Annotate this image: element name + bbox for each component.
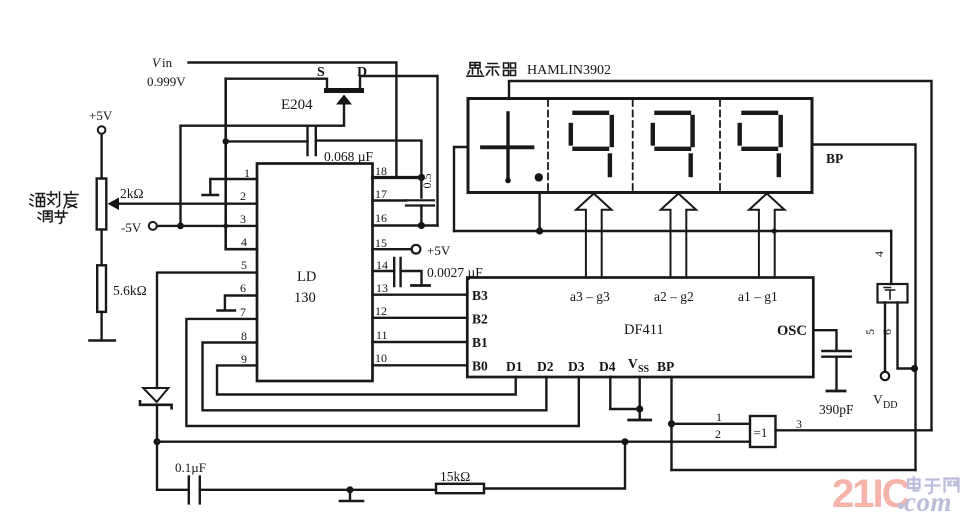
svg-text:390pF: 390pF [819,402,854,417]
pin 12 wire to B2 [373,317,468,319]
junction D4/Vss [636,405,643,412]
svg-text:2kΩ: 2kΩ [120,186,144,201]
junction DP drop [536,227,543,234]
label full-scale-adjust line1 (hanzi) [30,192,78,209]
terminal +5V at pin15 [412,245,421,254]
svg-text:V: V [152,55,162,70]
wire -5V to pin3 [157,225,257,227]
pin 16 wire [373,224,438,226]
svg-text:D3: D3 [568,359,585,374]
wire diode net to gate =1 pin2 [157,441,750,443]
wire diode to 0.1uF node [157,405,189,490]
transistor E204 FET channel bar [324,88,364,93]
wire display decimal point drop [538,193,540,232]
svg-text:15: 15 [375,236,387,250]
svg-text:5: 5 [241,258,247,272]
arrow 3 (units digit driver) [749,194,784,278]
wire gate pin3 output [776,429,932,431]
svg-text:1: 1 [716,410,722,424]
transistor E204 drain lead [360,76,438,226]
svg-text:B0: B0 [472,359,488,374]
wire BP from display right [812,145,916,471]
svg-text:16: 16 [375,211,387,225]
svg-text:5: 5 [863,329,877,335]
svg-text:14: 14 [376,258,388,272]
svg-text:S: S [317,65,325,80]
svg-text:8: 8 [241,329,247,343]
potentiometer wiper arrow [108,198,120,211]
svg-text:V: V [628,356,638,371]
label (hanzi) display [467,63,516,77]
pin 10 wire to B0 [373,364,468,366]
watermark dot [898,503,904,509]
ground bar 390pF [827,390,845,393]
display cell divider 2 (dashed) [632,100,634,191]
wire Vss to ground [639,377,641,419]
svg-text:a2 – g2: a2 – g2 [654,289,694,304]
svg-text:D1: D1 [506,359,523,374]
display cell divider 3 (dashed) [719,100,721,191]
svg-text:D2: D2 [537,359,554,374]
svg-text:11: 11 [376,328,388,342]
pin 6 common bar [218,309,236,311]
capacitor 390pF lower lead [835,357,837,390]
svg-text:17: 17 [375,187,387,201]
svg-text:18: 18 [375,164,387,178]
wire BP bottom route [672,469,916,471]
pin 1 common bar [203,194,219,196]
capacitor 0.5 lower lead [420,206,422,226]
capacitor 0.1uF plates [189,477,200,504]
arrow 1 (hundreds digit driver) [576,194,611,278]
display HAMLIN3902 body [468,99,812,193]
pin 15 wire [373,248,412,250]
svg-text:6: 6 [880,329,894,335]
transistor E204 source lead [227,79,327,88]
diode (zener) from pin5 [143,388,168,402]
digit 9 (hundreds) segments [571,113,612,175]
svg-text:LD: LD [297,269,316,285]
svg-text:BP: BP [826,151,843,166]
svg-text:2: 2 [240,189,246,203]
svg-text:B3: B3 [472,288,488,303]
wire T-box pin5 to VDD [884,303,886,372]
wire 5.6k to ground [100,312,102,340]
svg-text:2: 2 [715,427,721,441]
svg-text:3: 3 [240,212,246,226]
svg-text:+5V: +5V [89,108,113,123]
pin 14 wire [373,270,395,272]
potentiometer 2k body [97,179,107,230]
svg-text:0.999V: 0.999V [147,74,186,89]
svg-text:D: D [357,65,367,80]
svg-text:13: 13 [376,281,388,295]
svg-text:V: V [873,392,883,407]
wire display top to right bus [509,81,932,430]
svg-text:6: 6 [240,281,246,295]
gate =1 body [750,416,776,447]
svg-text:DD: DD [883,400,897,411]
terminal -5V circle [149,222,157,230]
op-amp/IC U1 LD130 body [257,164,373,382]
pin 11 wire to B1 [373,341,468,343]
svg-text:10: 10 [375,351,387,365]
wire 0.1uF to 15k [200,489,436,491]
junction pin18 [418,174,425,181]
wire pin7 loop to D3 [186,319,578,426]
junction gate/-5V wire [177,223,184,230]
svg-text:0.068 µF: 0.068 µF [324,149,374,164]
plus-minus digit bottom dot [505,178,511,184]
svg-text:3: 3 [796,417,802,431]
svg-text:SS: SS [638,364,650,375]
svg-text:0.5: 0.5 [420,174,434,189]
wire BP pin down [670,377,672,470]
svg-text:a1 – g1: a1 – g1 [738,289,778,304]
wire T-box pin6 to BP vertical [898,303,916,369]
arrow 2 (tens digit driver) [661,194,696,278]
capacitor 390pF plates [822,351,850,357]
pin 6 wire with common bar [225,296,257,310]
svg-text:OSC: OSC [777,323,807,339]
label full-scale-adjust line2 (hanzi) [38,211,68,224]
ground bar below 5.6k [90,339,115,342]
svg-text:E204: E204 [281,97,313,113]
svg-text:B2: B2 [472,312,488,327]
wire pin9 loop to D1 [217,365,516,394]
wire pin8 loop to D2 [203,343,547,411]
wire Vin to pin18 net [189,63,397,178]
wire pin5 to diode [157,273,257,388]
wire DP bus down to T-box [890,231,892,284]
wire +5V to potentiometer [100,134,102,179]
junction BP pin / gate pin1 [668,420,675,427]
wire 15k to diode-net junction [484,442,625,489]
wire wiper to pin2 [117,202,257,204]
decimal point dot [535,173,543,181]
junction pin16 [418,222,425,229]
ground stem at 15k wire [349,490,351,500]
junction 15k / diode net [622,438,629,445]
plus-minus digit vertical stroke [506,113,509,178]
junction ground tap [347,486,354,493]
wire pot to 5.6k [100,230,102,266]
terminal +5V circle [98,126,106,134]
pin 17 wire to cap plate [373,199,407,201]
wire OSC to capacitor [813,330,836,350]
terminal VDD circle [881,372,889,380]
diode cathode bar [140,401,172,408]
ground bar Vss [629,419,651,422]
pin 1 wire with common bar [210,179,257,194]
svg-text:7: 7 [240,305,246,319]
svg-text:a3 – g3: a3 – g3 [570,289,610,304]
resistor 15k body [436,484,484,493]
svg-text:15kΩ: 15kΩ [440,469,470,484]
pin 13 wire to B3 [373,294,468,296]
svg-text:130: 130 [294,290,316,306]
svg-text:21IC: 21IC [832,472,910,516]
wire gate pin1 [672,423,751,425]
svg-text:=1: =1 [754,425,768,440]
ground bar 0.0027 [412,284,430,287]
svg-text:9: 9 [241,352,247,366]
capacitor 0.068uF right wire to pin18 junction [316,141,422,178]
svg-text:B1: B1 [472,335,488,350]
svg-text:4: 4 [241,235,247,249]
wire source vertical to pin4 [226,79,257,250]
capacitor 0.0027uF plates [394,258,400,286]
capacitor 0.068uF left wire [226,140,308,142]
svg-text:12: 12 [375,304,387,318]
wire D4 to Vss node [610,377,639,409]
wire display left pin down to DP bus [454,147,468,231]
svg-text:-5V: -5V [121,220,142,235]
digit 9 (units) segments [740,113,781,175]
T-box glyph [884,288,895,300]
svg-text:HAMLIN3902: HAMLIN3902 [527,63,611,78]
svg-text:1: 1 [244,166,250,180]
svg-text:+5V: +5V [427,243,451,258]
junction source vert at pin3 wire [223,224,228,229]
plus-minus digit horizontal stroke [482,145,533,149]
svg-text:0.1µF: 0.1µF [175,460,206,475]
watermark hanzi electronics-net [908,477,959,494]
svg-text:in: in [162,55,173,70]
junction source/cap0.068 [223,138,229,144]
junction DP bus at arrow3 shaft [772,228,777,233]
transistor E204 gate lead wire [181,103,345,226]
capacitor 0.5 plates [406,200,434,205]
capacitor 0.5 upper lead [420,178,422,198]
junction pin6/BP vertical [911,365,918,372]
capacitor 0.068uF plates [308,126,316,155]
junction diode net [154,438,161,445]
transistor E204 gate arrow [336,95,352,105]
resistor 5.6k body [97,265,106,312]
digit 9 (tens) segments [653,113,693,175]
node DP bus horizontal [454,230,891,232]
svg-text:BP: BP [657,359,674,374]
ground bar at 15k wire [340,500,363,503]
svg-text:DF411: DF411 [624,322,664,338]
pin 18 wire (thick) [373,176,422,179]
svg-text:D4: D4 [599,359,616,374]
display cell divider 1 (dashed) [547,100,549,191]
IC U2 DF411 body [467,278,813,378]
capacitor 0.0027uF right lead to ground [401,271,422,284]
svg-text:5.6kΩ: 5.6kΩ [113,283,147,298]
svg-text:4: 4 [872,251,886,257]
component T-box (BP driver) [878,284,908,303]
